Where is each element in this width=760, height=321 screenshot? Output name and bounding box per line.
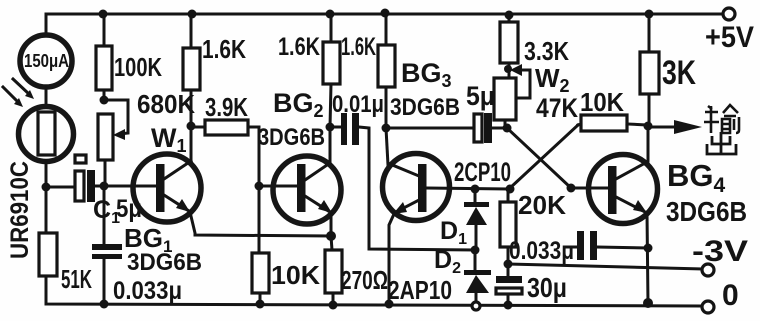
node 20K top: [506, 185, 515, 194]
transistor BG1: [133, 154, 201, 222]
transistor BG3 mirrored: [383, 154, 450, 221]
wire photocell to node: [45, 161, 48, 187]
wire BG4 collector up: [647, 126, 650, 161]
wire node to C1: [46, 186, 75, 189]
node 1.6K no3 top: [381, 9, 390, 18]
node 30u rail: [504, 301, 513, 310]
node BG4 base: [567, 184, 576, 193]
svg-text:1.6K: 1.6K: [278, 33, 320, 61]
wire BG3 emitter down: [389, 214, 394, 304]
node D1 top: [471, 185, 480, 194]
diode D2: [464, 250, 491, 302]
resistor 1.6K no3: [378, 14, 395, 128]
node W2/5u: [503, 124, 512, 133]
wire C1 to BG1 base: [95, 185, 156, 188]
capacitor C1 5u: [75, 155, 95, 202]
node 3.3K top: [505, 11, 514, 20]
resistor 3K: [640, 14, 659, 126]
node BG4 emitter rail: [643, 298, 653, 308]
svg-text:3.3K: 3.3K: [524, 36, 569, 66]
node 0.033 at rail: [100, 300, 109, 309]
light arrow 1: [13, 79, 34, 99]
resistor 1.6K no1: [183, 14, 200, 126]
svg-text:270Ω: 270Ω: [341, 265, 388, 295]
wire base node to 10K: [258, 186, 261, 253]
wire BG1 collector up: [190, 125, 193, 160]
wire meter to photocell: [45, 88, 48, 107]
node 100K/W1: [100, 96, 109, 105]
svg-text:3.9K: 3.9K: [205, 92, 248, 122]
svg-text:2AP10: 2AP10: [388, 275, 452, 305]
node BG3 emitter rail: [385, 300, 394, 309]
terminal +5V: [723, 8, 735, 20]
node 10K rail: [256, 300, 265, 309]
node photocell/C1/51K: [42, 183, 51, 192]
potentiometer W1 680K: [98, 100, 128, 186]
wire BG2 emitter down: [330, 213, 333, 236]
svg-text:10K: 10K: [271, 260, 320, 290]
node 270 rail: [329, 301, 338, 310]
node 1.6K no1 top: [188, 10, 197, 19]
wire BG4 base lead: [571, 187, 608, 190]
terminal -3V: [702, 264, 714, 276]
transistor BG4: [589, 155, 658, 224]
resistor 270ohm: [325, 236, 342, 305]
svg-text:0: 0: [722, 279, 739, 312]
svg-text:30μ: 30μ: [527, 272, 567, 303]
wire BG4 emitter down: [647, 213, 648, 303]
svg-text:+5V: +5V: [705, 21, 754, 54]
terminal small open circle D2 rail: [472, 302, 480, 310]
node base/W1/0.033: [100, 182, 109, 191]
svg-text:47K: 47K: [536, 93, 578, 123]
node BG2 base: [255, 182, 264, 191]
wire top +5V rail: [46, 14, 722, 34]
ammeter M 150uA: [20, 35, 72, 87]
svg-text:20K: 20K: [518, 190, 566, 220]
wire BG2 base lead: [259, 185, 297, 188]
svg-text:150μA: 150μA: [24, 51, 69, 71]
photoresistor UR6910C: [19, 107, 74, 162]
output arrow: [648, 120, 702, 134]
wire BG1 emitter: [190, 212, 331, 236]
node 20K/30u/-3V: [504, 260, 513, 269]
svg-text:51K: 51K: [61, 264, 92, 294]
wire BG3 collector lead: [386, 128, 388, 165]
capacitor 0.033u right: [567, 231, 648, 260]
wire BG2 collector up: [329, 127, 332, 162]
capacitor 0.01u: [330, 113, 475, 250]
resistor 1.6K no2: [323, 14, 340, 127]
wire -3V line: [508, 264, 702, 269]
capacitor 0.033u left: [92, 186, 122, 304]
svg-text:-3V: -3V: [692, 235, 748, 268]
node 100K top: [99, 10, 108, 19]
diode D1: [464, 189, 489, 250]
svg-text:3DG6B: 3DG6B: [666, 196, 747, 227]
svg-text:1.6K: 1.6K: [341, 33, 376, 61]
svg-text:3K: 3K: [662, 54, 696, 92]
resistor 10K bottom: [252, 253, 269, 304]
potentiometer W2 47K: [494, 64, 530, 128]
svg-text:1.6K: 1.6K: [202, 34, 246, 64]
terminal 0: [702, 301, 714, 313]
svg-text:100K: 100K: [114, 52, 162, 82]
wire BG3 base right: [427, 188, 510, 189]
wire cross diagonal B to 20K: [510, 125, 578, 188]
node BG1 collector: [187, 122, 196, 131]
transistor BG2: [273, 156, 341, 224]
svg-text:UR6910C: UR6910C: [6, 161, 34, 259]
node 3K top: [645, 10, 654, 19]
svg-text:5μ: 5μ: [466, 81, 495, 111]
resistor 10K right: [578, 115, 648, 131]
svg-text:680K: 680K: [137, 89, 195, 119]
capacitor 30u: [496, 264, 522, 305]
node BG2 collector: [326, 123, 335, 132]
svg-text:10K: 10K: [580, 87, 624, 117]
label chu output char2: [707, 132, 736, 154]
wire bottom 0V rail: [46, 277, 701, 306]
resistor 100K: [96, 14, 112, 100]
node common emitters: [326, 231, 336, 241]
resistor 3.9K: [191, 120, 259, 186]
svg-text:3DG6B: 3DG6B: [127, 249, 202, 276]
node 0.033 right: [644, 244, 653, 253]
wire cross diagonal A to BG4 base: [508, 129, 571, 188]
svg-text:0.01μ: 0.01μ: [332, 91, 384, 118]
node output: [644, 122, 653, 131]
node 1.6K no2 top: [326, 10, 335, 19]
resistor 20K: [500, 189, 516, 264]
resistor 51K: [39, 187, 57, 304]
svg-text:2CP10: 2CP10: [454, 157, 511, 187]
capacitor 5u coupling: [386, 113, 507, 143]
resistor 3.3K: [500, 15, 518, 78]
node BG3 collector: [382, 124, 391, 133]
svg-text:3DG6B: 3DG6B: [390, 94, 460, 121]
node D1/D2: [471, 246, 480, 255]
svg-text:0.033μ: 0.033μ: [509, 237, 574, 265]
svg-text:3DG6B: 3DG6B: [258, 124, 325, 151]
svg-text:0.033μ: 0.033μ: [113, 277, 182, 305]
light arrow 2: [3, 87, 23, 107]
label shu output char1: [704, 105, 739, 133]
